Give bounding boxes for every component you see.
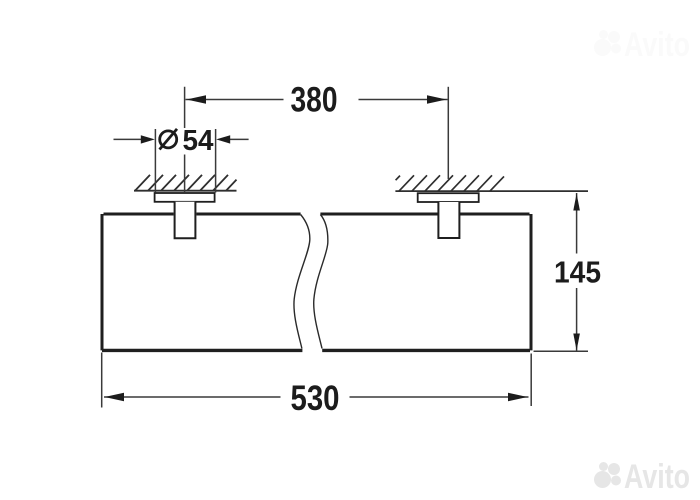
svg-text:145: 145 (554, 255, 601, 290)
dimension 145: bottom extension line (534, 350, 589, 352)
wall bracket right: plate (418, 193, 479, 202)
dimension 380: arrowheads (187, 95, 447, 103)
svg-text:530: 530 (291, 378, 340, 418)
right break curve (314, 215, 328, 349)
wall bracket right: stem (438, 202, 459, 238)
dimension 145: arrowheads (573, 194, 580, 351)
break lines (squiggles) (294, 215, 328, 349)
wall bracket left: stem (175, 202, 196, 238)
wall bracket left: plate (155, 193, 215, 202)
svg-text:Avito: Avito (624, 26, 690, 64)
dimension Ø54: leader lines (114, 138, 249, 140)
dimension Ø54: diameter symbol (160, 129, 178, 150)
shelf left edge (101, 214, 104, 350)
svg-text:380: 380 (291, 80, 338, 120)
dimension Ø54: arrowheads (141, 135, 230, 143)
dimension 530: dimension line (104, 396, 529, 398)
dimension 530: extension lines (102, 353, 532, 408)
dimension 145: dimension line (576, 193, 578, 351)
shelf right edge (530, 214, 533, 350)
wall hatch right + 145 top extension line (395, 175, 588, 191)
shelf top edge segments (104, 213, 530, 216)
dimension 380: dimension line (186, 99, 448, 101)
svg-text:Avito: Avito (624, 458, 690, 496)
dimension 380: extension lines (185, 87, 449, 192)
wall hatch left (134, 175, 237, 191)
dimension 530: arrowheads (105, 393, 528, 401)
watermark bottom-right (Avito logo + text) (594, 458, 690, 496)
left break curve (294, 215, 310, 349)
dimension Ø54: extension lines (155, 129, 215, 193)
shelf bottom edge segments (102, 349, 530, 352)
svg-text:54: 54 (183, 125, 214, 157)
watermark top-right (faint Avito logo + text) (594, 26, 690, 64)
shelf outline (glass shelf, broken view) (102, 214, 531, 350)
